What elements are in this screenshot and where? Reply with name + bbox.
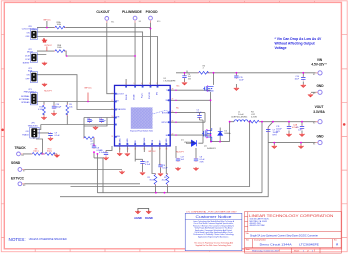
svg-text:3: 3 <box>149 83 150 85</box>
svg-text:SGND: SGND <box>11 161 21 165</box>
svg-text:PGOOD: PGOOD <box>146 10 159 14</box>
svg-text:1000pF: 1000pF <box>99 120 107 122</box>
svg-text:LTC CONFIDENTIAL - FOR CUSTOME: LTC CONFIDENTIAL - FOR CUSTOMER USE ONLY <box>186 210 237 213</box>
svg-text:100k: 100k <box>57 47 61 49</box>
svg-text:0.1uF: 0.1uF <box>99 152 105 154</box>
svg-text:3.3V/5A: 3.3V/5A <box>313 110 325 114</box>
svg-text:(Opt.): (Opt.) <box>33 150 38 153</box>
svg-text:4: 4 <box>203 68 204 70</box>
svg-text:CMDSH-4E: CMDSH-4E <box>184 142 195 144</box>
svg-text:4: 4 <box>141 83 142 85</box>
svg-text:AGND: AGND <box>126 138 129 144</box>
svg-text:Applications Engineering For A: Applications Engineering For Assistance. <box>198 235 229 238</box>
svg-text:E7: E7 <box>23 171 25 173</box>
svg-text:NOTES:: NOTES: <box>9 237 26 242</box>
svg-text:100pF: 100pF <box>87 120 93 122</box>
svg-text:E1: E1 <box>313 74 315 76</box>
svg-text:(Opt.): (Opt.) <box>47 150 52 153</box>
svg-text:PGND: PGND <box>166 138 168 144</box>
svg-text:27: 27 <box>172 99 174 101</box>
svg-text:DGND: DGND <box>145 216 153 220</box>
svg-text:18: 18 <box>166 149 168 151</box>
svg-text:11: 11 <box>112 136 114 138</box>
svg-text:E11: E11 <box>111 21 114 23</box>
svg-text:LINEAR TECHNOLOGY CORPORATION: LINEAR TECHNOLOGY CORPORATION <box>249 213 334 218</box>
svg-text:4.99k: 4.99k <box>38 109 43 111</box>
svg-text:LTC3604EFE: LTC3604EFE <box>299 242 319 246</box>
svg-text:NPO: NPO <box>273 135 278 137</box>
svg-text:CLKOUT/ENABLE: CLKOUT/ENABLE <box>22 28 39 31</box>
svg-text:40.2k: 40.2k <box>162 180 167 182</box>
svg-text:Sheet: Sheet <box>294 249 300 252</box>
svg-text:PGOOD: PGOOD <box>149 91 151 99</box>
svg-text:E2: E2 <box>313 123 315 125</box>
svg-text:BURST: BURST <box>23 62 31 64</box>
svg-text:0.25W: 0.25W <box>251 117 257 119</box>
svg-text:16: 16 <box>151 149 153 151</box>
svg-text:CLKOUT: CLKOUT <box>116 94 125 96</box>
svg-text:MODE: MODE <box>27 52 34 54</box>
svg-text:Drawing Number: Drawing Number <box>254 240 266 242</box>
svg-text:Psync: Psync <box>141 93 143 98</box>
svg-text:INTVCC: INTVCC <box>84 88 92 90</box>
svg-text:E9: E9 <box>139 21 141 23</box>
svg-text:E10: E10 <box>157 21 160 23</box>
svg-text:0.1uF: 0.1uF <box>197 112 203 114</box>
svg-text:408-432-0507 FAX: 408-432-0507 FAX <box>250 224 266 227</box>
svg-text:INTVCC: INTVCC <box>161 122 169 124</box>
svg-text:PLLIN: PLLIN <box>126 94 128 100</box>
svg-text:0.1uF: 0.1uF <box>55 135 61 137</box>
svg-text:GND: GND <box>316 135 324 139</box>
svg-text:EXTERNAL: EXTERNAL <box>19 98 30 101</box>
svg-text:NC/OPT: NC/OPT <box>44 91 52 93</box>
svg-text:VON: VON <box>152 139 154 144</box>
svg-text:E8: E8 <box>23 185 25 187</box>
svg-text:INTVCC: INTVCC <box>43 19 51 21</box>
svg-text:TRACK/SS: TRACK/SS <box>116 108 126 111</box>
svg-text:8: 8 <box>112 100 113 102</box>
svg-text:AGND: AGND <box>134 216 142 220</box>
svg-text:SW: SW <box>165 100 168 102</box>
svg-text:17: 17 <box>159 149 161 151</box>
svg-text:TRACK/SS: TRACK/SS <box>28 124 39 127</box>
svg-text:E4: E4 <box>313 144 315 146</box>
svg-text:Exposed Pad, Bottom Side: Exposed Pad, Bottom Side <box>130 129 153 132</box>
svg-text:Title:: Title: <box>246 232 250 235</box>
svg-text:VIN: VIN <box>317 58 323 62</box>
svg-text:TRACK: TRACK <box>15 146 27 150</box>
svg-text:Supplied For Use With Linear T: Supplied For Use With Linear Technology … <box>196 244 232 247</box>
svg-text:6: 6 <box>126 83 127 85</box>
svg-text:15: 15 <box>144 149 146 151</box>
svg-text:80.6k: 80.6k <box>150 180 155 182</box>
svg-text:2: 2 <box>156 83 157 85</box>
svg-text:22: 22 <box>172 134 174 136</box>
svg-text:2.1k: 2.1k <box>91 144 95 146</box>
svg-text:Wednesday, October 24, 2007: Wednesday, October 24, 2007 <box>252 249 280 252</box>
svg-text:CLKOUT: CLKOUT <box>96 10 109 14</box>
svg-text:Customer Notice: Customer Notice <box>196 215 232 219</box>
svg-text:10k: 10k <box>69 107 72 109</box>
svg-text:Voltage: Voltage <box>275 46 287 50</box>
svg-text:NC/OPT: NC/OPT <box>176 152 184 154</box>
svg-text:Rev: Rev <box>334 240 337 242</box>
svg-text:X5R: X5R <box>200 162 204 164</box>
svg-text:UNLESS OTHERWISE SPECIFIED: UNLESS OTHERWISE SPECIFIED <box>29 237 67 241</box>
svg-text:PLLIN/MODE: PLLIN/MODE <box>122 10 142 14</box>
svg-text:0.1uF: 0.1uF <box>145 164 151 166</box>
svg-text:0.1uF: 0.1uF <box>163 168 169 170</box>
svg-text:4.5V-32V *: 4.5V-32V * <box>311 62 327 66</box>
svg-text:28: 28 <box>172 89 174 91</box>
svg-text:CDEP105-1R0MC: CDEP105-1R0MC <box>231 117 248 119</box>
svg-text:Without Affecting Output: Without Affecting Output <box>275 42 316 46</box>
svg-text:* Vin Can Drop As Low As 4V: * Vin Can Drop As Low As 4V <box>275 37 323 41</box>
svg-text:B340A: B340A <box>225 132 232 135</box>
svg-text:7: 7 <box>112 93 113 95</box>
svg-text:Si4840DY: Si4840DY <box>207 148 217 150</box>
svg-text:12: 12 <box>119 149 121 151</box>
svg-text:10: 10 <box>112 116 114 118</box>
svg-text:14: 14 <box>134 149 136 151</box>
svg-text:5: 5 <box>133 83 134 85</box>
svg-text:LTC3604EFE: LTC3604EFE <box>164 81 177 83</box>
svg-text:RUN: RUN <box>28 71 33 73</box>
svg-text:10uF: 10uF <box>294 79 299 81</box>
svg-text:INTVCC: INTVCC <box>148 151 156 153</box>
svg-text:25: 25 <box>172 111 174 113</box>
svg-text:E6: E6 <box>22 155 24 157</box>
svg-text:INTVCC: INTVCC <box>45 45 53 47</box>
svg-text:10uF: 10uF <box>239 80 244 82</box>
svg-text:24: 24 <box>172 121 174 123</box>
svg-text:TRACK: TRACK <box>22 134 29 137</box>
svg-text:GND: GND <box>316 84 324 88</box>
svg-text:SENSE: SENSE <box>144 137 146 144</box>
svg-text:SGND: SGND <box>120 138 122 144</box>
svg-text:9: 9 <box>112 109 113 111</box>
svg-text:100pF: 100pF <box>56 107 62 109</box>
svg-text:SPREAD: SPREAD <box>21 101 30 104</box>
svg-text:CCM: CCM <box>25 59 30 61</box>
svg-text:Size: Size <box>246 240 249 242</box>
svg-text:EXTVCC: EXTVCC <box>11 176 25 180</box>
svg-text:NORMAL: NORMAL <box>21 95 30 98</box>
svg-text:BOOST: BOOST <box>162 112 169 114</box>
svg-text:VOUT: VOUT <box>315 105 324 109</box>
svg-text:DCM: DCM <box>25 56 30 58</box>
svg-text:FREQUENCY: FREQUENCY <box>24 92 37 94</box>
svg-text:Demo Circuit 1344A: Demo Circuit 1344A <box>260 242 292 246</box>
svg-text:13: 13 <box>127 149 129 151</box>
svg-text:MODE: MODE <box>134 94 136 100</box>
svg-text:100k: 100k <box>57 24 61 26</box>
svg-text:Single 5A Low Quiescent Curren: Single 5A Low Quiescent Current Step-Dow… <box>250 233 318 237</box>
